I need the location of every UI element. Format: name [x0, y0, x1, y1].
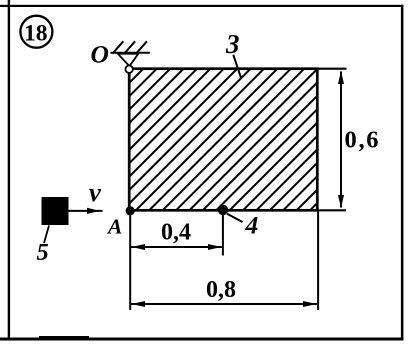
svg-text:3: 3: [225, 29, 240, 59]
svg-text:4: 4: [245, 210, 259, 239]
svg-text:0,8: 0,8: [206, 277, 236, 303]
svg-text:O: O: [91, 39, 109, 68]
svg-text:18: 18: [24, 20, 48, 46]
svg-text:0,4: 0,4: [161, 220, 191, 246]
svg-text:v: v: [89, 177, 101, 207]
svg-text:5: 5: [37, 239, 49, 266]
svg-text:A: A: [106, 214, 122, 238]
svg-text:0,6: 0,6: [345, 126, 381, 153]
